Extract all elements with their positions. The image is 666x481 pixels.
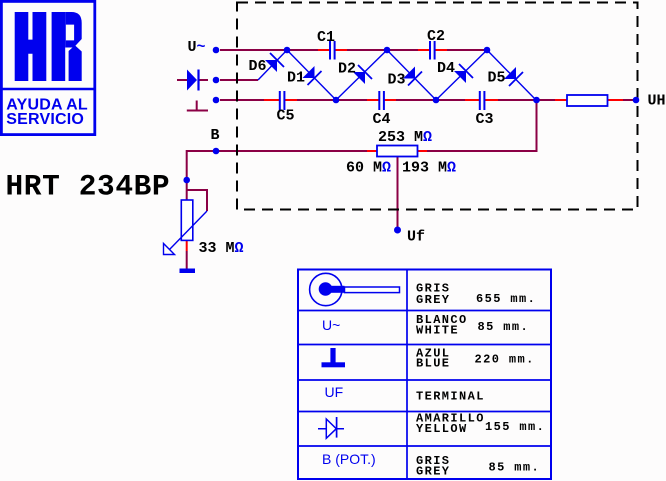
diode D5: [487, 50, 536, 100]
node B terminal: [213, 148, 220, 155]
svg-text:253 MΩ: 253 MΩ: [378, 129, 432, 146]
svg-text:Uf: Uf: [407, 229, 425, 246]
diode D3: [387, 50, 436, 100]
node diode terminal: [213, 77, 220, 84]
legend icon diode: [318, 417, 344, 438]
svg-text:GREY: GREY: [416, 465, 450, 479]
svg-text:155 mm.: 155 mm.: [485, 420, 545, 434]
wire bottom rail red leads of C5 C4 C3: [264, 99, 498, 101]
capacitor C3 plates: [480, 91, 485, 110]
svg-text:D4: D4: [437, 60, 455, 77]
svg-text:D1: D1: [287, 70, 305, 87]
svg-text:TERMINAL: TERMINAL: [416, 390, 485, 404]
diode D6: [258, 50, 287, 80]
diode D2: [336, 50, 387, 100]
svg-text:C2: C2: [427, 28, 445, 45]
svg-text:U~: U~: [188, 39, 206, 56]
input diode at left: [187, 70, 199, 91]
svg-text:B (POT.): B (POT.): [322, 451, 376, 467]
node potentiometer junction: [183, 177, 190, 184]
resistor 253M body: [377, 146, 418, 157]
svg-text:85 mm.: 85 mm.: [489, 461, 541, 475]
ground bar below potentiometer: [180, 269, 196, 274]
legend table column divider: [406, 270, 408, 480]
legend icon ground: [322, 348, 346, 367]
svg-text:BLUE: BLUE: [416, 357, 450, 371]
wire red leads of 253M resistor: [367, 150, 427, 152]
svg-text:85 mm.: 85 mm.: [478, 320, 530, 334]
dashed enclosure box: [237, 3, 638, 210]
wire vertical from output node down to B rail: [536, 100, 538, 151]
wire top rail maroon segments: [220, 49, 487, 51]
HR logo letter H: [15, 12, 47, 81]
wire middle rail: [177, 79, 258, 81]
wire output rail to UH: [537, 99, 637, 101]
svg-text:B: B: [211, 127, 220, 144]
svg-text:YELLOW: YELLOW: [416, 422, 468, 436]
legend table outer frame: [298, 270, 551, 480]
svg-text:C1: C1: [317, 29, 335, 46]
legend table row divider 4: [298, 411, 551, 413]
capacitor C4 plates: [379, 91, 384, 110]
node bottom rail junction 3: [533, 97, 540, 104]
legend table row divider 3: [298, 379, 551, 381]
svg-text:655 mm.: 655 mm.: [476, 292, 536, 306]
svg-text:WHITE: WHITE: [416, 324, 459, 338]
svg-text:C5: C5: [277, 108, 295, 125]
HR logo outer frame: [1, 1, 94, 134]
diode D4: [436, 50, 487, 100]
legend icon anode cap: [310, 273, 400, 305]
diode D1: [287, 50, 336, 100]
svg-text:D5: D5: [488, 70, 506, 87]
wire top rail red leads of C1 and C2: [318, 49, 447, 51]
HR logo divider line: [1, 88, 95, 90]
node top rail junction 1: [284, 47, 291, 54]
svg-text:D6: D6: [249, 58, 267, 75]
wire Uf stem: [397, 157, 399, 231]
svg-text:UH: UH: [648, 93, 666, 110]
potentiometer body: [181, 200, 193, 240]
node bottom rail junction 2: [433, 97, 440, 104]
node U~ terminal: [213, 47, 220, 54]
svg-text:C4: C4: [373, 111, 391, 128]
svg-text:UF: UF: [325, 384, 344, 400]
node Uf terminal: [394, 227, 401, 234]
wire potentiometer wiper loop: [187, 190, 207, 211]
node ground terminal: [213, 97, 220, 104]
node top rail junction 2: [384, 47, 391, 54]
wire red leads of output resistor: [555, 99, 623, 101]
svg-text:193 MΩ: 193 MΩ: [402, 160, 456, 177]
ground symbol small at input: [187, 101, 208, 111]
node UH terminal: [633, 97, 640, 104]
wire potentiometer bottom to ground: [186, 251, 188, 269]
node bottom rail junction 1: [333, 97, 340, 104]
svg-text:60 MΩ: 60 MΩ: [346, 160, 391, 177]
svg-text:D3: D3: [388, 72, 406, 89]
svg-text:GREY: GREY: [416, 293, 450, 307]
potentiometer arrow: [164, 211, 208, 255]
svg-text:D2: D2: [338, 61, 356, 78]
resistor output body: [567, 95, 608, 106]
legend table row divider 1: [298, 310, 551, 312]
svg-text:C3: C3: [476, 111, 494, 128]
svg-text:HRT 234BP: HRT 234BP: [6, 170, 171, 204]
svg-text:220 mm.: 220 mm.: [475, 353, 535, 367]
legend table row divider 2: [298, 344, 551, 346]
svg-text:SERVICIO: SERVICIO: [6, 111, 84, 128]
HR logo letter R: [52, 12, 82, 81]
svg-text:U~: U~: [322, 317, 340, 333]
capacitor C2 plates: [430, 41, 435, 60]
capacitor C5 plates: [280, 91, 285, 110]
node top rail junction 3: [484, 47, 491, 54]
legend table row divider 5: [298, 445, 551, 447]
wire B rail: [187, 150, 538, 152]
wire B corner down to potentiometer: [186, 150, 188, 200]
svg-text:33 MΩ: 33 MΩ: [199, 240, 244, 257]
wire bottom rail maroon segments: [220, 99, 537, 101]
capacitor C1 plates: [330, 41, 335, 60]
wire potentiometer bottom red segment: [186, 240, 188, 251]
